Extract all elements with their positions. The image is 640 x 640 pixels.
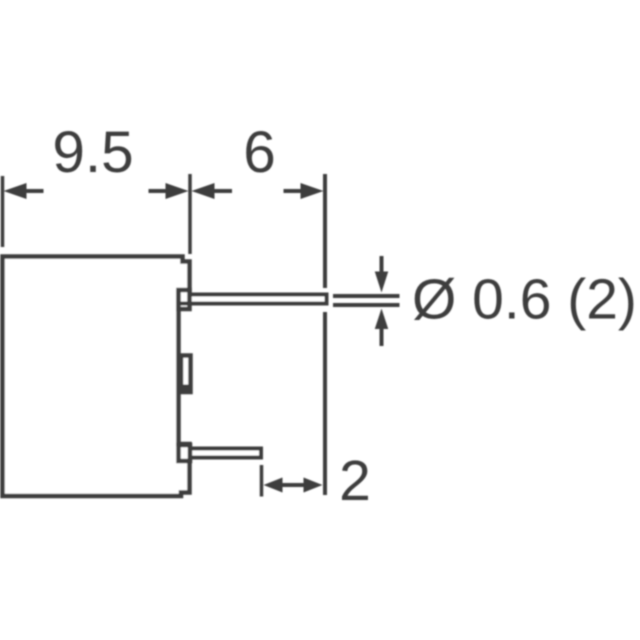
svg-text:9.5: 9.5 [52, 120, 133, 185]
middle tab [181, 356, 191, 393]
dimension 2: double arrow [264, 478, 283, 493]
lower lead tab [179, 445, 191, 461]
svg-text:6: 6 [243, 120, 276, 185]
upper lead (pin) [190, 295, 327, 304]
diameter dimension: down arrow [380, 256, 384, 272]
svg-text:Ø 0.6 (2): Ø 0.6 (2) [412, 268, 637, 332]
dimension 9.5: right arrow [166, 183, 189, 199]
svg-text:2: 2 [339, 449, 371, 513]
dimension 6: left arrow [192, 183, 215, 199]
diameter dimension: up arrow [375, 309, 389, 330]
lower lead (pin) [190, 449, 261, 458]
extension line middle (x=190) [188, 174, 192, 254]
middle tab thick bottom edge [179, 385, 193, 395]
upper lead tab [179, 290, 190, 309]
extension line at lower lead end (x=261.5) [260, 465, 264, 497]
body outline of component (side view) [3, 257, 190, 497]
upper lead bottom edge crossing tab [180, 302, 190, 306]
extension line right (x=325), broken at lead [323, 174, 327, 288]
dimension 9.5: left arrow [4, 183, 27, 199]
extension line left (x=2.5) [1, 176, 5, 247]
dimension 6: right arrow [301, 183, 324, 199]
diameter extension lines (horizontal) [333, 294, 400, 298]
